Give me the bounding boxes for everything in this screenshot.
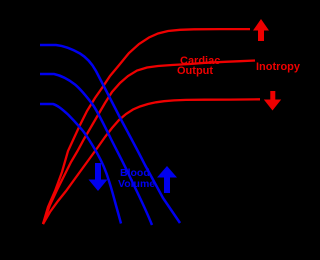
red down arrow (decreased inotropy)	[264, 91, 281, 111]
blue down arrow (decreased blood volume)	[89, 163, 108, 191]
venous return curve top (blue, high volume)	[40, 45, 180, 223]
cardiac function curve top (red, high inotropy)	[43, 29, 250, 224]
venous return curve middle (blue, normal volume)	[40, 74, 152, 225]
red up arrow (increased inotropy)	[253, 19, 269, 41]
blue up arrow (increased blood volume)	[157, 166, 177, 193]
svg-text:Output: Output	[177, 65, 213, 77]
svg-text:Inotropy: Inotropy	[256, 61, 300, 73]
venous return curve bottom (blue, low volume)	[40, 104, 121, 224]
cardiac function curve bottom (red, low inotropy)	[43, 99, 260, 224]
svg-text:Volume: Volume	[118, 178, 155, 190]
cardiac function curve middle (red, normal)	[43, 61, 255, 225]
